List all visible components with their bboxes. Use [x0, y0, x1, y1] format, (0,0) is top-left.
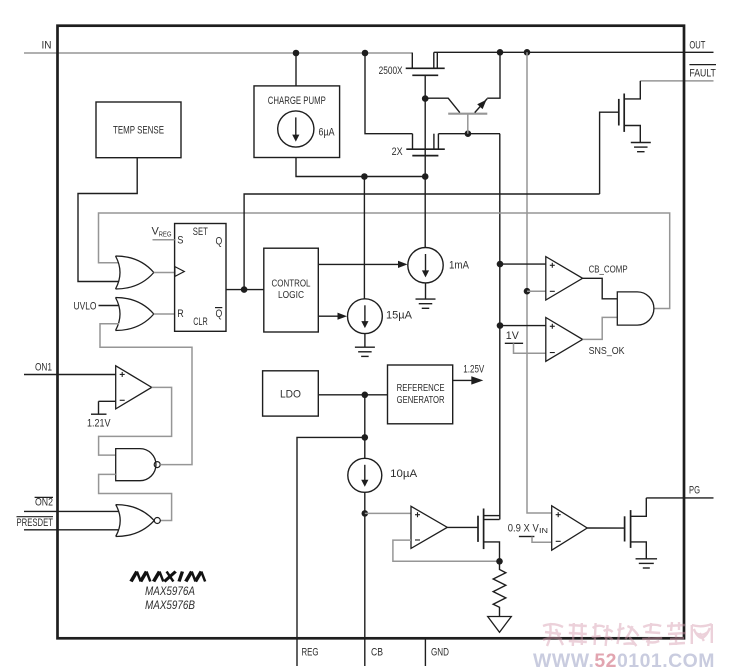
label 10uA	[390, 468, 418, 480]
label ON1	[35, 362, 52, 374]
latch clock triangle	[175, 267, 184, 277]
svg-text:S: S	[177, 234, 183, 246]
wire emitter to OUT	[487, 52, 500, 98]
latch label Qbar	[215, 308, 223, 320]
node gate-drive 15uA tap	[361, 173, 368, 180]
control logic label	[272, 277, 311, 301]
source 1V bar	[505, 342, 523, 344]
wire IN to 2X drain	[365, 53, 413, 134]
svg-text:FAULT: FAULT	[689, 67, 716, 79]
wire 15uA top lead	[363, 177, 365, 299]
svg-text:1mA: 1mA	[449, 260, 470, 272]
mosfet M-FAULT	[619, 81, 641, 143]
svg-text:0.9 X V: 0.9 X V	[508, 522, 540, 534]
wire CB feedback loop	[99, 213, 670, 309]
latch label R	[177, 308, 184, 320]
node IN-2X junction	[362, 50, 369, 57]
transistor Q1 collector	[425, 98, 460, 112]
wire charge pump top lead	[295, 53, 297, 86]
transistor Q1 base lead	[467, 114, 469, 134]
op-amp A1	[411, 506, 447, 548]
svg-text:6µA: 6µA	[319, 126, 336, 138]
wire FAULT line	[640, 80, 713, 82]
label MAX5976A	[145, 584, 195, 598]
wire UVLO stub	[99, 305, 120, 307]
wire OR2 output	[154, 313, 175, 315]
svg-text:1.21V: 1.21V	[87, 417, 111, 429]
svg-text:1.25V: 1.25V	[463, 363, 484, 375]
wire CB_COMP plus input	[500, 263, 546, 265]
label 1mA	[449, 260, 470, 272]
comparator PG-comp	[552, 506, 588, 550]
node monitor to CB_COMP-	[524, 288, 531, 295]
wire LDO output	[318, 394, 387, 396]
node OUT-monitor junction	[524, 49, 531, 56]
ground PG mosfet	[636, 559, 658, 568]
svg-text:MAX5976B: MAX5976B	[145, 598, 195, 612]
transistor Q1 base bar	[448, 113, 487, 115]
label 2500X	[379, 65, 403, 77]
current source 6uA	[278, 111, 314, 147]
svg-text:1V: 1V	[506, 330, 520, 342]
svg-text:IN: IN	[42, 39, 52, 51]
latch label SET	[193, 226, 208, 238]
node IN-charge-pump junction	[293, 50, 300, 57]
label 1.25V	[463, 363, 484, 375]
watermark chinese characters	[543, 622, 712, 646]
label CB_COMP	[589, 263, 628, 275]
svg-text:10µA: 10µA	[390, 468, 418, 480]
svg-text:REFERENCE: REFERENCE	[397, 382, 445, 394]
node sense resistor junction	[496, 558, 503, 565]
wire ON1 output loop	[99, 387, 172, 455]
ground FAULT mosfet	[631, 143, 651, 152]
label 1V	[506, 330, 520, 342]
svg-text:LOGIC: LOGIC	[278, 289, 304, 301]
wire sense line vertical	[499, 134, 501, 520]
wire ON1 ref input	[99, 401, 116, 414]
control logic box	[264, 248, 319, 332]
node OUT-sense junction	[497, 49, 504, 56]
source 1.21V bar	[91, 413, 107, 415]
latch label S	[177, 234, 183, 246]
pin label OUT	[689, 39, 705, 51]
svg-text:2X: 2X	[392, 146, 404, 158]
temp sense box	[96, 102, 181, 158]
svg-text:CONTROL: CONTROL	[272, 277, 311, 289]
node sense to SNS_OK+	[497, 322, 504, 329]
latch U1 box	[175, 224, 226, 332]
wire control to 1mA	[318, 261, 407, 268]
label VREG	[152, 225, 172, 238]
wire temp sense to OR1	[78, 158, 137, 282]
wire IN bus	[24, 52, 412, 54]
svg-text:CB_COMP: CB_COMP	[589, 263, 628, 275]
latch label CLR	[193, 316, 208, 328]
svg-text:ON2: ON2	[35, 497, 53, 509]
wire ON1 input	[24, 374, 116, 376]
svg-text:LDO: LDO	[280, 389, 301, 401]
wire PRESDET input	[24, 529, 119, 531]
pin GND stub	[424, 637, 426, 666]
svg-text:CLR: CLR	[193, 316, 208, 328]
wire OR1 output	[154, 272, 175, 274]
svg-text:Q: Q	[216, 308, 223, 320]
svg-text:Q: Q	[216, 235, 223, 247]
mosfet M-SNS	[478, 509, 500, 562]
wire SNS_OK minus input	[514, 343, 546, 353]
current source 1mA	[408, 248, 443, 283]
svg-text:R: R	[177, 308, 184, 320]
current source 10uA	[348, 458, 382, 492]
svg-text:SET: SET	[193, 226, 208, 238]
wire OUT bus	[434, 51, 714, 53]
mosfet M-PG	[625, 498, 647, 559]
svg-text:IN: IN	[539, 528, 548, 535]
wire SNS_OK output	[583, 317, 618, 339]
label ON2	[35, 497, 53, 509]
comparator ON1	[116, 366, 152, 409]
svg-text:PRESDET: PRESDET	[17, 517, 54, 529]
mosfet 2500X	[406, 52, 445, 75]
comparator CB_COMP	[546, 257, 583, 300]
label SNS_OK	[589, 345, 625, 357]
wire CB net vertical	[364, 492, 366, 666]
current source 15uA	[348, 299, 383, 334]
ldo box	[263, 371, 319, 416]
wire NOR to NAND loop	[99, 474, 172, 520]
or-gate G2	[116, 298, 154, 331]
reference generator box	[388, 365, 453, 424]
label PRESDET	[17, 517, 54, 529]
ground 15uA	[355, 347, 375, 356]
wire control to 15uA	[318, 313, 347, 320]
wire 10uA to opamp	[365, 512, 411, 514]
wire SNS_OK plus input	[500, 325, 546, 327]
latch label Q	[216, 235, 223, 247]
wire 0.9comp minus input	[532, 537, 552, 543]
svg-text:CB: CB	[371, 646, 383, 658]
svg-text:REG: REG	[302, 646, 319, 658]
node sense to CB_COMP+	[497, 261, 504, 268]
svg-text:15µA: 15µA	[386, 309, 413, 321]
nand-gate G4	[116, 449, 161, 481]
svg-text:SNS_OK: SNS_OK	[589, 345, 625, 357]
wire opamp feedback loop	[393, 540, 500, 561]
node 2500X gate / BJT collector	[422, 95, 429, 102]
svg-text:ON1: ON1	[35, 362, 52, 374]
node REG branch	[362, 434, 369, 441]
label 2X	[392, 146, 404, 158]
pin label CB	[371, 646, 383, 658]
comparator SNS_OK	[546, 318, 583, 362]
ground sense (open triangle)	[488, 617, 512, 633]
wire charge pump bottom lead	[296, 158, 425, 177]
wire 1.25V output	[453, 376, 484, 384]
outer border	[58, 26, 685, 639]
label UVLO	[74, 300, 97, 312]
or-gate G1	[116, 256, 154, 289]
wire Q output	[226, 289, 264, 291]
transistor Q1 emitter	[475, 99, 488, 113]
node 10uA bottom junction	[362, 510, 369, 517]
wire REF node down	[364, 395, 366, 438]
svg-text:WWW.520101.COM: WWW.520101.COM	[533, 650, 715, 670]
label 0.9xVIN	[508, 522, 548, 535]
reference generator label	[397, 382, 445, 406]
wire NAND output loop	[100, 324, 192, 465]
resistor R-SNS	[493, 561, 506, 616]
wire CB_COMP minus input	[527, 290, 546, 292]
svg-text:TEMP SENSE: TEMP SENSE	[113, 125, 164, 137]
wire VREG stub	[153, 239, 175, 241]
maxim logo	[131, 572, 205, 582]
svg-text:REG: REG	[159, 231, 172, 238]
wire PG comp output	[587, 527, 624, 529]
temp sense label	[113, 125, 164, 137]
wire 1mA bottom lead	[425, 283, 427, 299]
pin label GND	[431, 646, 449, 658]
watermark url	[533, 650, 715, 670]
pin label IN	[42, 39, 52, 51]
label 1.21V	[87, 417, 111, 429]
node gate-drive end	[422, 173, 429, 180]
wire OUT monitor vertical	[527, 52, 552, 513]
charge pump label	[268, 95, 326, 107]
label 6uA	[319, 126, 336, 138]
svg-text:MAX5976A: MAX5976A	[145, 584, 195, 598]
wire PG line	[646, 497, 713, 499]
node Q junction	[241, 286, 248, 293]
pin label REG	[302, 646, 319, 658]
pin label PG	[689, 485, 700, 497]
svg-text:OUT: OUT	[689, 39, 705, 51]
ldo label	[280, 389, 301, 401]
node REF input junction	[362, 392, 369, 399]
wire 2X source to sense line	[438, 133, 500, 135]
wire REG branch	[297, 437, 365, 666]
label MAX5976B	[145, 598, 195, 612]
svg-text:UVLO: UVLO	[74, 300, 97, 312]
svg-text:GENERATOR: GENERATOR	[397, 394, 445, 406]
wire opamp output	[447, 526, 478, 528]
wire 15uA bottom lead	[364, 334, 366, 348]
svg-text:CHARGE PUMP: CHARGE PUMP	[268, 95, 326, 107]
nor-gate G5	[116, 505, 161, 537]
label 15uA	[386, 309, 413, 321]
and-gate G3	[617, 292, 654, 325]
wire 2500X gate lead	[424, 75, 426, 176]
wire ON2 input	[24, 510, 119, 512]
svg-text:GND: GND	[431, 646, 449, 658]
wire CB_COMP output	[583, 278, 618, 299]
node BJT base junction	[465, 130, 472, 137]
svg-text:PG: PG	[689, 485, 700, 497]
source 0.9VIN bar	[519, 536, 535, 538]
svg-text:2500X: 2500X	[379, 65, 403, 77]
charge pump box	[254, 86, 340, 158]
wire 10uA top lead	[364, 437, 366, 458]
wire 1mA top lead	[424, 177, 426, 248]
wire FAULT gate lead	[600, 112, 619, 194]
pin label FAULT	[689, 65, 716, 80]
mosfet 2X	[406, 134, 445, 156]
wire Q to FAULT gate	[244, 194, 599, 290]
ground 1mA	[416, 299, 436, 308]
